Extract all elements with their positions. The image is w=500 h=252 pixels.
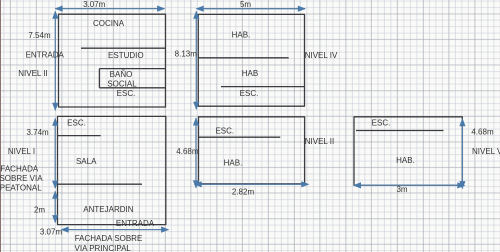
svg-text:SALA: SALA xyxy=(76,157,97,166)
svg-text:HAB.: HAB. xyxy=(224,159,243,168)
dimension arrow 2m left xyxy=(52,191,58,224)
plan 1 bath box bottom wall xyxy=(99,87,165,89)
svg-text:NIVEL II: NIVEL II xyxy=(305,137,335,146)
svg-text:2.82m: 2.82m xyxy=(232,188,255,197)
dimension arrow 8.13m left xyxy=(193,11,199,111)
svg-text:7.54m: 7.54m xyxy=(28,31,51,40)
plan 1 outline (COCINA/ESTUDIO level) xyxy=(59,14,166,107)
svg-text:ESTUDIO: ESTUDIO xyxy=(108,51,144,60)
svg-text:3.07m: 3.07m xyxy=(40,228,63,237)
svg-text:BAÑO: BAÑO xyxy=(110,70,133,79)
svg-text:4.68m: 4.68m xyxy=(176,147,199,156)
svg-text:ESC.: ESC. xyxy=(372,119,391,128)
plan 3 wall above ESC xyxy=(221,86,305,88)
dimension arrow 3.74m left xyxy=(52,118,58,189)
plan 3 outline (NIVEL IV) xyxy=(198,14,304,106)
svg-text:8.13m: 8.13m xyxy=(175,50,198,59)
svg-text:COCINA: COCINA xyxy=(93,19,125,28)
dimension arrow 4.68m left xyxy=(193,117,199,188)
svg-text:NIVEL V: NIVEL V xyxy=(472,147,500,156)
dimension arrow 3.07m bottom xyxy=(61,227,170,233)
dimension arrow 3.07m top xyxy=(55,6,166,12)
svg-text:3.74m: 3.74m xyxy=(26,128,49,137)
svg-text:NIVEL II: NIVEL II xyxy=(18,69,48,78)
svg-text:NIVEL I: NIVEL I xyxy=(8,147,35,156)
plan 4 outline (NIVEL II) xyxy=(199,117,305,184)
plan 4 wall under ESC xyxy=(199,136,281,138)
svg-text:2m: 2m xyxy=(34,206,45,215)
dimension arrow 4.68m right xyxy=(459,118,465,189)
dimension arrow 5m top xyxy=(196,6,307,12)
svg-text:ESC.: ESC. xyxy=(67,119,86,128)
plan 1 wall under COCINA xyxy=(81,47,166,49)
svg-text:HAB.: HAB. xyxy=(232,31,251,40)
svg-text:3.07m: 3.07m xyxy=(83,0,106,9)
plan 2 outline (SALA/ANTEJARDIN level) xyxy=(58,116,166,224)
svg-text:NIVEL IV: NIVEL IV xyxy=(305,51,338,60)
svg-text:PEATONAL: PEATONAL xyxy=(0,184,42,193)
plan 1 bath box left wall xyxy=(98,69,100,88)
dimension arrow 3m bottom xyxy=(353,182,466,188)
scan page left edge xyxy=(0,0,1,252)
svg-text:5m: 5m xyxy=(240,0,251,9)
svg-text:ENTRADA: ENTRADA xyxy=(116,219,155,228)
svg-text:SOCIAL: SOCIAL xyxy=(107,80,137,89)
svg-text:ESC.: ESC. xyxy=(215,126,234,135)
plan 2 ESC box bottom wall xyxy=(58,135,101,137)
plan 5 wall under ESC xyxy=(356,130,444,132)
svg-text:ESC.: ESC. xyxy=(117,89,136,98)
svg-text:ANTEJARDIN: ANTEJARDIN xyxy=(83,205,133,214)
svg-text:VIA PRINCIPAL: VIA PRINCIPAL xyxy=(75,244,132,252)
svg-text:FACHADA SOBRE: FACHADA SOBRE xyxy=(75,234,143,243)
plan 3 wall under upper HAB xyxy=(198,57,288,59)
plan 1 bath box top wall xyxy=(99,68,165,70)
svg-text:ENTRADA: ENTRADA xyxy=(26,51,65,60)
svg-text:FACHADA: FACHADA xyxy=(0,165,38,174)
svg-text:HAB: HAB xyxy=(242,69,258,78)
dimension arrow 7.54m left xyxy=(52,11,58,112)
plan 5 outline (NIVEL V) xyxy=(354,117,462,185)
svg-text:4.68m: 4.68m xyxy=(471,128,494,137)
svg-text:ESC.: ESC. xyxy=(240,89,259,98)
svg-text:HAB.: HAB. xyxy=(396,156,415,165)
plan 2 wall between SALA and ANTEJARDIN xyxy=(58,183,143,185)
svg-text:SOBRE VIA: SOBRE VIA xyxy=(0,174,43,183)
dimension arrow 2.82m bottom xyxy=(194,181,310,187)
svg-text:3m: 3m xyxy=(396,185,407,194)
